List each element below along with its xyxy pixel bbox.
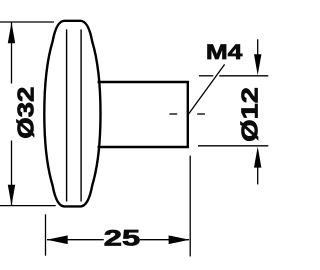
dim Ø32 dimension line lower segment bbox=[11, 141, 13, 206]
dim Ø32 top extension line bbox=[0, 21, 54, 23]
dim Ø12 top extension line right part bbox=[219, 75, 268, 77]
dim Ø12 bottom extension line bbox=[198, 145, 268, 147]
dim 25 dimension line left segment bbox=[47, 239, 104, 241]
centerline dash left of shaft end bbox=[169, 113, 177, 115]
dim Ø12 arrow down (tail) bbox=[257, 39, 259, 60]
svg-text:Ø12: Ø12 bbox=[236, 87, 262, 142]
centerline dash right of shaft end bbox=[197, 113, 205, 115]
knob head contour line left bbox=[66, 29, 68, 201]
dim 25 arrow left bbox=[47, 235, 68, 244]
dim 25 left extension line bbox=[45, 214, 47, 255]
dim Ø12 top extension line left part bbox=[199, 75, 213, 77]
dim Ø32 dimension line upper segment bbox=[11, 23, 13, 84]
dim Ø32 arrow up bbox=[8, 22, 15, 43]
leader line M4 to thread bbox=[188, 64, 224, 114]
dim Ø12 arrow up (tail) bbox=[257, 165, 259, 184]
dim Ø12 arrow up (head) bbox=[254, 147, 261, 168]
dim Ø32 arrow down bbox=[8, 185, 15, 206]
dim Ø32 bottom extension line bbox=[0, 205, 56, 207]
shaft outline bbox=[98, 81, 188, 148]
svg-text:Ø32: Ø32 bbox=[14, 87, 39, 139]
svg-text:M4: M4 bbox=[206, 40, 243, 64]
dim Ø12 arrow down (head) bbox=[254, 54, 261, 75]
dim 25 right extension line bbox=[189, 156, 191, 257]
knob head contour line right bbox=[80, 29, 82, 201]
svg-text:25: 25 bbox=[104, 225, 140, 250]
knob head outline bbox=[44, 21, 100, 207]
dim 25 arrow right bbox=[169, 235, 190, 244]
dim 25 dimension line right segment bbox=[140, 239, 189, 241]
